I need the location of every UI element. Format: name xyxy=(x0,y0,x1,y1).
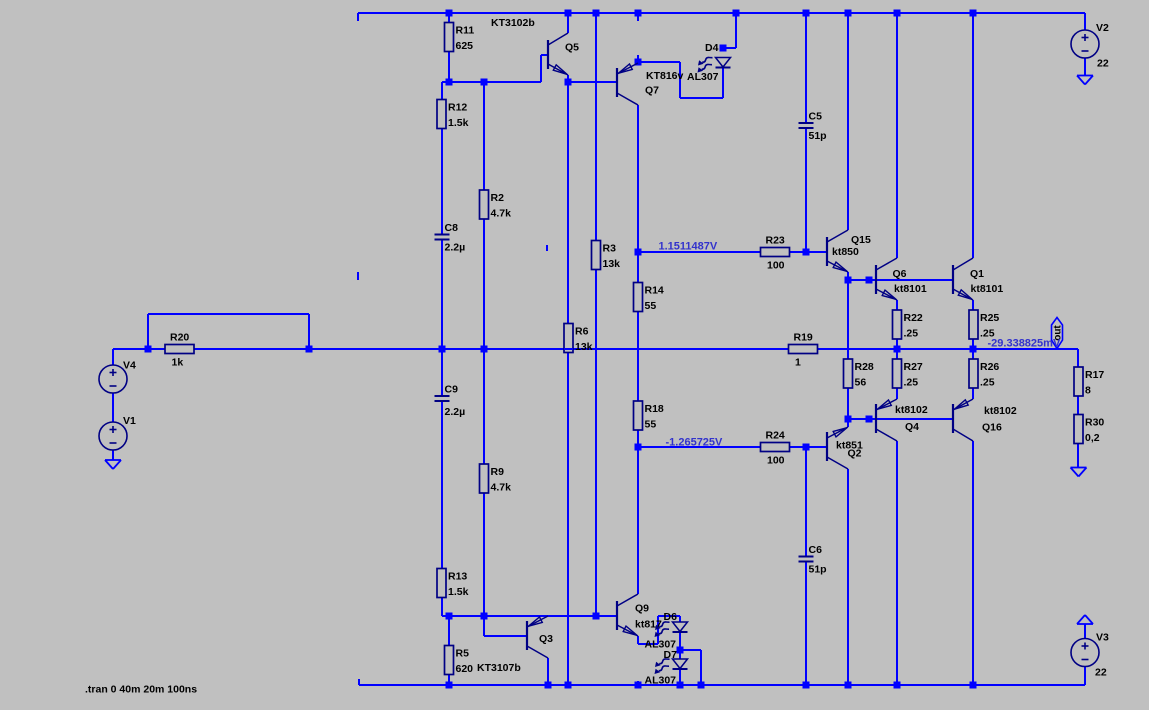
resistor R9 xyxy=(480,464,512,494)
wire R18 to Q9 collector xyxy=(637,447,639,594)
svg-text:R6: R6 xyxy=(575,326,589,338)
svg-text:22: 22 xyxy=(1095,667,1107,679)
wire C5 upper lead xyxy=(805,13,807,123)
wire Q5 collector to rail xyxy=(567,13,569,33)
wire lower drive line y=447 xyxy=(638,446,776,448)
wire Q7 emitter net xyxy=(638,62,723,98)
junction Q15 base xyxy=(803,249,810,256)
junction top rail xyxy=(803,10,810,17)
wire V4-V1 link xyxy=(112,393,114,422)
junction top rail xyxy=(446,10,453,17)
svg-text:1: 1 xyxy=(795,357,801,369)
svg-text:100: 100 xyxy=(767,455,785,467)
svg-text:100: 100 xyxy=(767,260,785,272)
svg-text:R22: R22 xyxy=(904,312,923,324)
wire Q15 emitter to R28 xyxy=(847,272,849,359)
svg-text:1.5k: 1.5k xyxy=(448,586,469,598)
svg-text:55: 55 xyxy=(645,419,657,431)
wire Q5 base-Q7 link y=82 xyxy=(568,81,617,83)
stub bottom rail x=638 xyxy=(637,681,639,685)
svg-text:51p: 51p xyxy=(809,130,827,142)
junction top rail xyxy=(970,10,977,17)
transistor Q16 (kt8102) xyxy=(953,399,973,441)
junction mid rail xyxy=(145,346,152,353)
wire V2 top lead xyxy=(1084,13,1086,30)
junction mid rail xyxy=(894,346,901,353)
svg-text:R27: R27 xyxy=(904,361,923,373)
svg-text:Q2: Q2 xyxy=(848,448,862,460)
resistor R14 xyxy=(634,283,664,313)
wire Q6 collector to rail xyxy=(896,13,898,258)
wire V2 ground lead xyxy=(1084,58,1086,75)
svg-text:V3: V3 xyxy=(1096,632,1109,644)
svg-text:kt8102: kt8102 xyxy=(895,404,928,416)
svg-text:.25: .25 xyxy=(980,377,995,389)
svg-text:Q6: Q6 xyxy=(893,268,907,280)
stub Q7 emitter xyxy=(637,55,639,62)
junction Q4 base xyxy=(866,416,873,423)
junction bottom rail xyxy=(677,682,684,689)
wire R25-R26 link xyxy=(972,339,974,359)
svg-text:.tran 0 40m 20m 100ns: .tran 0 40m 20m 100ns xyxy=(85,684,197,696)
svg-text:R25: R25 xyxy=(980,312,999,324)
junction base bus xyxy=(446,79,453,86)
svg-text:13k: 13k xyxy=(575,341,593,353)
junction D4 anode xyxy=(720,45,727,52)
svg-text:V2: V2 xyxy=(1096,22,1109,34)
svg-text:-1.265725V: -1.265725V xyxy=(666,437,724,449)
voltage source V2 xyxy=(1071,30,1099,58)
stub top rail x=638 xyxy=(637,13,639,21)
wire lower bus y=616 xyxy=(449,615,617,617)
ground below V1 xyxy=(105,460,121,469)
capacitor C6 xyxy=(798,544,827,576)
svg-text:4.7k: 4.7k xyxy=(491,208,512,220)
power flag above V3 (inverted ground) xyxy=(1077,615,1093,624)
node marker mid xyxy=(546,245,548,251)
svg-text:Q15: Q15 xyxy=(851,234,871,246)
wire Q2 collector to rail xyxy=(847,469,849,685)
junction top rail xyxy=(593,10,600,17)
wire V3 flag lead xyxy=(1084,624,1086,639)
svg-text:kt8101: kt8101 xyxy=(971,283,1004,295)
svg-text:R30: R30 xyxy=(1085,417,1104,429)
resistor R23 xyxy=(761,235,790,272)
junction base bus xyxy=(481,79,488,86)
svg-text:625: 625 xyxy=(456,40,474,52)
junction Q6 base xyxy=(866,277,873,284)
svg-text:.25: .25 xyxy=(904,377,919,389)
wire Q3 base drop xyxy=(484,616,527,636)
svg-text:1k: 1k xyxy=(172,357,184,369)
LED diode D6 xyxy=(645,611,688,651)
wire D7 bypass xyxy=(680,650,701,685)
wire top supply rail xyxy=(358,13,1085,21)
wire R18 lead xyxy=(637,430,639,447)
LED diode D7 xyxy=(645,649,688,687)
wire R9 column xyxy=(483,349,485,616)
wire R11 leads xyxy=(448,13,450,82)
svg-text:R11: R11 xyxy=(456,25,475,37)
svg-text:R19: R19 xyxy=(794,332,813,344)
wire Q6 base line y=280 xyxy=(848,279,953,281)
wire Q4 base line y=419 xyxy=(848,418,953,420)
wire Q7 collector column xyxy=(637,105,639,252)
wire D7 cathode lead xyxy=(679,669,681,685)
wire R28 to Q2 emitter xyxy=(847,388,849,427)
svg-text:56: 56 xyxy=(855,377,867,389)
junction top rail xyxy=(635,10,642,17)
wire mid rail through R6 xyxy=(564,348,573,350)
junction Q7 emitter xyxy=(635,59,642,66)
resistor R25 xyxy=(969,310,999,340)
transistor Q5 (KT3102b) xyxy=(548,33,568,75)
junction Q2 base xyxy=(803,444,810,451)
wire Q5 emitter column x=568 xyxy=(567,75,569,685)
wire R27 to Q4 emitter xyxy=(896,388,898,399)
svg-text:C6: C6 xyxy=(809,544,823,556)
svg-text:KT816v: KT816v xyxy=(646,70,684,82)
svg-text:8: 8 xyxy=(1085,385,1091,397)
svg-text:kt850: kt850 xyxy=(832,246,859,258)
svg-text:51p: 51p xyxy=(809,564,827,576)
transistor Q2 (kt851) xyxy=(827,427,848,469)
junction upper drive xyxy=(635,249,642,256)
junction bottom rail xyxy=(698,682,705,689)
resistor R20 xyxy=(165,332,194,369)
svg-text:R12: R12 xyxy=(448,102,467,114)
resistor R27 xyxy=(893,359,923,389)
resistor R17 xyxy=(1074,367,1104,397)
wire R5 column xyxy=(448,616,450,685)
resistor R30 xyxy=(1074,415,1104,445)
svg-text:R23: R23 xyxy=(766,235,785,247)
wire R3 column top xyxy=(595,13,597,241)
svg-text:KT3107b: KT3107b xyxy=(477,662,521,674)
svg-text:Q1: Q1 xyxy=(970,268,984,280)
wire C9 column xyxy=(441,349,443,396)
junction mid rail xyxy=(970,346,977,353)
junction bottom rail xyxy=(545,682,552,689)
resistor R26 xyxy=(969,359,999,389)
svg-text:C9: C9 xyxy=(445,384,459,396)
junction top rail xyxy=(565,10,572,17)
svg-text:2.2µ: 2.2µ xyxy=(445,406,466,418)
wire R30 ground lead xyxy=(1077,444,1079,467)
wire mid signal rail y=349 xyxy=(113,348,1078,350)
junction lower bus xyxy=(593,613,600,620)
resistor R12 xyxy=(437,100,469,130)
svg-text:V1: V1 xyxy=(123,415,136,427)
svg-text:R26: R26 xyxy=(980,361,999,373)
junction mid rail xyxy=(306,346,313,353)
junction bottom rail xyxy=(803,682,810,689)
svg-text:-29.338825mV: -29.338825mV xyxy=(988,338,1061,350)
voltage source V3 xyxy=(1071,639,1099,667)
wire Q15 collector to rail xyxy=(847,13,849,230)
wire out branch xyxy=(1077,349,1079,367)
transistor Q6 (kt8101) xyxy=(876,258,897,300)
wire Q1 emitter to R25 xyxy=(972,300,974,310)
wire R14-R18 link xyxy=(637,312,639,401)
node marker left xyxy=(357,272,359,280)
svg-text:D7: D7 xyxy=(664,649,678,661)
wire R2 column xyxy=(483,82,485,349)
resistor R18 xyxy=(634,401,664,431)
svg-text:R17: R17 xyxy=(1085,369,1104,381)
wire Q16 collector to rail xyxy=(972,441,974,685)
junction top rail xyxy=(894,10,901,17)
svg-text:2.2µ: 2.2µ xyxy=(445,242,466,254)
svg-text:R3: R3 xyxy=(603,243,617,255)
svg-text:R5: R5 xyxy=(456,648,470,660)
wire D6 cathode lead xyxy=(679,632,681,650)
wire R17-R30 link xyxy=(1077,396,1079,414)
junction Q15 emitter xyxy=(845,277,852,284)
junction bottom rail xyxy=(446,682,453,689)
svg-text:Q3: Q3 xyxy=(539,633,553,645)
junction bottom rail xyxy=(635,682,642,689)
svg-text:V4: V4 xyxy=(123,360,136,372)
wire upper drive line y=252 xyxy=(638,251,776,253)
svg-text:C5: C5 xyxy=(809,111,823,123)
transistor Q1 (kt8101) xyxy=(953,258,973,300)
svg-text:22: 22 xyxy=(1097,58,1109,70)
svg-text:R13: R13 xyxy=(448,571,467,583)
svg-text:kt8101: kt8101 xyxy=(894,283,927,295)
svg-text:kt8102: kt8102 xyxy=(984,405,1017,417)
junction mid rail xyxy=(439,346,446,353)
svg-text:R2: R2 xyxy=(491,192,505,204)
wire C5 lower lead xyxy=(805,128,807,252)
wire R12/C8 column xyxy=(441,82,443,235)
svg-text:1.1511487V: 1.1511487V xyxy=(659,241,718,253)
svg-text:620: 620 xyxy=(456,663,474,675)
junction base bus xyxy=(565,79,572,86)
svg-text:.25: .25 xyxy=(904,328,919,340)
junction bottom rail xyxy=(970,682,977,689)
junction top rail xyxy=(733,10,740,17)
svg-text:D4: D4 xyxy=(705,42,719,54)
resistor R24 xyxy=(761,430,790,467)
svg-text:Q9: Q9 xyxy=(635,603,649,615)
LED diode D4 xyxy=(687,42,731,83)
wire C8 to mid rail xyxy=(441,240,443,349)
wire R23 to Q15 base xyxy=(790,251,827,253)
svg-text:55: 55 xyxy=(645,300,657,312)
transistor Q4 (kt8102) xyxy=(876,399,897,441)
transistor Q3 (KT3107b) xyxy=(527,616,548,658)
resistor R19 xyxy=(789,332,818,369)
svg-text:1.5k: 1.5k xyxy=(448,117,469,129)
wire C6 upper lead xyxy=(805,447,807,556)
wire C6 lower lead xyxy=(805,561,807,685)
wire V4 top lead xyxy=(112,349,114,365)
wire R22-R27 link xyxy=(896,339,898,359)
voltage source V4 xyxy=(99,365,127,393)
junction bottom rail xyxy=(894,682,901,689)
svg-text:R24: R24 xyxy=(766,430,785,442)
wire R26 to Q16 emitter xyxy=(972,388,974,399)
resistor R2 xyxy=(480,190,512,220)
junction bottom rail xyxy=(565,682,572,689)
resistor R28 xyxy=(844,359,874,389)
svg-text:13k: 13k xyxy=(603,258,621,270)
wire bottom rail xyxy=(359,679,1085,685)
junction top rail xyxy=(845,10,852,17)
junction bottom rail xyxy=(845,682,852,689)
svg-text:C8: C8 xyxy=(445,222,459,234)
resistor R3 xyxy=(592,241,621,271)
transistor Q7 (KT816) xyxy=(617,63,638,105)
svg-text:R9: R9 xyxy=(491,466,505,478)
wire Q9 emitter to D6 xyxy=(638,616,680,644)
svg-text:R28: R28 xyxy=(855,361,874,373)
wire R24 to Q2 base xyxy=(790,446,827,448)
svg-text:D6: D6 xyxy=(664,611,678,623)
svg-text:Q5: Q5 xyxy=(565,42,579,54)
svg-text:AL307: AL307 xyxy=(687,71,719,83)
wire Q3 collector to rail xyxy=(547,658,549,685)
resistor R6 xyxy=(564,324,593,354)
svg-text:KT3102b: KT3102b xyxy=(491,17,535,29)
wire R3 column bottom xyxy=(595,270,597,616)
wire D4 anode link xyxy=(723,13,736,48)
wire base bus y=82 xyxy=(442,55,548,82)
svg-text:R18: R18 xyxy=(645,403,664,415)
wire Q4 collector to rail xyxy=(896,441,898,685)
wire R20 bypass loop xyxy=(148,314,309,349)
transistor Q9 (kt817) xyxy=(617,594,638,636)
svg-text:Q4: Q4 xyxy=(905,421,919,433)
svg-text:0,2: 0,2 xyxy=(1085,432,1100,444)
junction mid rail xyxy=(481,346,488,353)
junction lower bus xyxy=(446,613,453,620)
wire C9 to R13 xyxy=(441,401,443,616)
junction lower drive xyxy=(635,444,642,451)
ground below V2 xyxy=(1077,76,1093,85)
svg-text:Q7: Q7 xyxy=(645,85,659,97)
ground below R30 xyxy=(1071,468,1087,477)
resistor R5 xyxy=(445,646,474,676)
svg-text:4.7k: 4.7k xyxy=(491,482,512,494)
wire V3 bottom lead xyxy=(1084,666,1086,685)
junction lower bus xyxy=(481,613,488,620)
capacitor C8 xyxy=(434,222,465,254)
wire R13-R5 elbow xyxy=(442,615,449,617)
wire R14 lead xyxy=(637,252,639,283)
net flag out xyxy=(1052,318,1064,349)
capacitor C5 xyxy=(798,111,827,143)
wire Q1 collector to rail xyxy=(972,13,974,258)
voltage source V1 xyxy=(99,422,127,450)
svg-text:AL307: AL307 xyxy=(645,675,677,687)
junction Q2 emitter xyxy=(845,416,852,423)
transistor Q15 (kt850) xyxy=(827,230,848,272)
resistor R13 xyxy=(437,569,469,599)
junction D6 cathode xyxy=(677,647,684,654)
wire V1 ground lead xyxy=(112,450,114,460)
svg-text:Q16: Q16 xyxy=(982,422,1002,434)
resistor R11 xyxy=(445,23,475,53)
svg-text:R20: R20 xyxy=(170,332,189,344)
wire D7 anode lead xyxy=(679,650,681,659)
svg-text:R14: R14 xyxy=(645,285,664,297)
wire Q6 emitter to R22 xyxy=(896,300,898,310)
capacitor C9 xyxy=(434,384,465,419)
resistor R22 xyxy=(893,310,923,340)
